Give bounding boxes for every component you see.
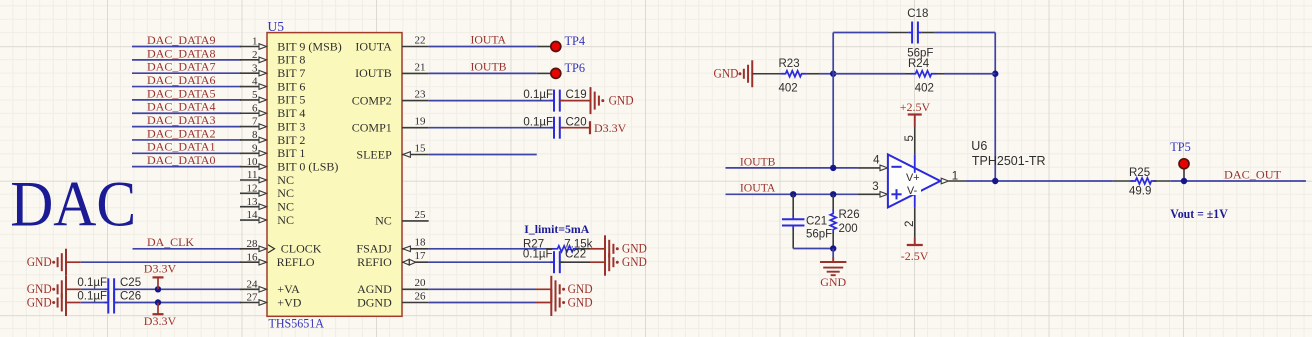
svg-text:NC: NC [277,213,294,227]
svg-text:REFLO: REFLO [277,255,315,269]
svg-text:4: 4 [252,76,258,88]
svg-text:IOUTB: IOUTB [740,156,776,168]
svg-text:3: 3 [252,62,258,74]
capacitor C21 56pF [792,194,794,216]
svg-text:CLOCK: CLOCK [281,242,322,256]
power port D3.3V bottom [153,313,164,315]
resistor R24 402 [833,73,905,75]
svg-text:2: 2 [904,221,916,227]
svg-text:5: 5 [252,89,258,101]
svg-text:BIT 9 (MSB): BIT 9 (MSB) [277,39,341,53]
pin 24 +VA [240,288,259,290]
wire net DAC_DATA8 [132,59,241,61]
pin 18 FSADJ [402,248,429,250]
junction node R23/R24/C18 [830,71,836,77]
op-amp plus sign [891,193,901,195]
svg-text:REFIO: REFIO [357,255,392,269]
wire R27 to GND [577,248,591,250]
svg-text:20: 20 [415,277,427,289]
svg-text:56pF: 56pF [806,229,832,241]
ground symbol GND at C19 [591,87,599,114]
svg-text:DGND: DGND [357,295,392,309]
svg-text:49.9: 49.9 [1129,185,1151,197]
pin 19 COMP1 [402,127,429,129]
power port D3.3V top [153,276,164,278]
svg-text:0.1µF: 0.1µF [523,116,553,128]
ground symbol GND at R27 [605,235,613,262]
ground symbol GND at AGND [551,276,559,303]
svg-text:BIT 0 (LSB): BIT 0 (LSB) [277,159,338,173]
svg-text:DAC_DATA4: DAC_DATA4 [147,102,216,114]
earth ground GND below R26 [832,249,834,258]
ground symbol GND at C22 [605,249,613,276]
svg-text:0.1µF: 0.1µF [77,290,107,302]
IC U5 body [267,33,402,317]
op-amp minus sign [891,166,901,168]
svg-text:DAC_DATA8: DAC_DATA8 [147,48,216,60]
svg-text:NC: NC [277,200,294,214]
ground symbol GND at DGND [551,289,559,316]
svg-text:V+: V+ [906,172,920,184]
svg-text:BIT 6: BIT 6 [277,79,305,93]
svg-text:14: 14 [247,209,259,221]
wire C18 right segment [922,32,935,34]
wire net DAC_DATA4 [132,112,241,114]
wire C22 to GND [560,261,590,263]
svg-text:23: 23 [415,89,427,101]
svg-text:+2.5V: +2.5V [900,100,931,114]
wire node down to IOUTB [832,74,834,168]
svg-text:DAC_DATA3: DAC_DATA3 [147,115,216,127]
svg-text:DAC_DATA9: DAC_DATA9 [147,35,216,47]
svg-text:DAC_DATA0: DAC_DATA0 [147,155,216,167]
wire node up to C18 [832,33,834,74]
wire C26 to pin 27 [116,302,242,304]
pin 23 COMP2 [402,100,429,102]
resistor R23 402 [752,73,780,75]
svg-text:DAC_DATA6: DAC_DATA6 [147,75,216,87]
svg-text:22: 22 [415,34,426,46]
svg-text:NC: NC [277,173,294,187]
svg-text:GND: GND [622,255,647,269]
pin 11 NC [240,179,259,181]
svg-text:BIT 2: BIT 2 [277,133,305,147]
svg-text:GND: GND [568,282,593,296]
svg-text:27: 27 [247,292,259,304]
svg-text:I_limit=5mA: I_limit=5mA [524,222,589,236]
junction IOUTA at R26 [830,191,836,197]
pin 2 BIT 8 [240,59,259,61]
junction node at D3.3V / +VA [155,286,161,292]
svg-text:D3.3V: D3.3V [144,314,177,328]
svg-text:GND: GND [27,255,52,269]
svg-text:DAC_DATA7: DAC_DATA7 [147,62,216,74]
svg-text:C25: C25 [120,277,141,289]
svg-text:GND: GND [609,94,634,108]
svg-text:THS5651A: THS5651A [269,316,325,331]
op-amp U6 TPH2501-TR [888,154,940,207]
svg-text:DAC_DATA5: DAC_DATA5 [147,88,216,100]
wire net IOUTA [726,193,858,195]
pin 21 IOUTB [402,72,429,74]
svg-text:COMP1: COMP1 [352,121,392,135]
svg-text:R24: R24 [908,58,930,70]
svg-text:D3.3V: D3.3V [594,121,627,135]
capacitor C18 56pF [911,22,913,44]
wire C19 to GND [560,100,591,102]
svg-text:R26: R26 [839,209,860,221]
pin 25 NC [402,220,429,222]
wire SLEEP unconnected [429,154,537,156]
svg-text:18: 18 [415,237,427,249]
svg-text:C26: C26 [120,290,141,302]
svg-text:TP5: TP5 [1170,140,1191,154]
svg-text:R23: R23 [779,58,800,70]
power port -2.5V [914,238,916,246]
svg-text:1: 1 [952,170,958,182]
capacitor C22 0.1uF [553,251,555,273]
svg-text:DAC_DATA1: DAC_DATA1 [147,142,216,154]
wire DGND to GND [429,302,535,304]
wire net DAC_DATA7 [132,72,241,74]
svg-text:17: 17 [415,250,427,262]
svg-text:8: 8 [252,129,258,141]
svg-text:NC: NC [375,214,392,228]
svg-text:C19: C19 [566,89,587,101]
resistor R26 200 [832,194,834,210]
svg-text:16: 16 [247,251,259,263]
pin 26 DGND [402,302,429,304]
svg-text:28: 28 [247,238,259,250]
svg-text:TP4: TP4 [565,34,586,48]
pin 13 NC [240,206,259,208]
svg-text:DA_CLK: DA_CLK [147,237,195,249]
wire net DAC_DATA6 [132,86,241,88]
pin 27 +VD [240,302,259,304]
wire COMP2 to C19 [429,100,554,102]
svg-text:1: 1 [252,36,258,48]
svg-text:15: 15 [415,142,427,154]
svg-text:BIT 1: BIT 1 [277,146,305,160]
svg-text:200: 200 [839,223,858,235]
pin 7 BIT 3 [240,126,259,128]
wire net IOUTB to TP6 [429,72,537,74]
wire net DAC_OUT [1170,180,1306,182]
pin 17 REFIO [402,261,429,263]
wire C21 R26 to ground [793,248,833,250]
svg-text:12: 12 [247,182,258,194]
svg-text:IOUTB: IOUTB [471,62,507,74]
svg-text:C20: C20 [566,116,587,128]
wire C20 to D3.3V [560,127,590,129]
svg-text:C21: C21 [806,215,827,227]
svg-text:IOUTA: IOUTA [471,35,507,47]
svg-text:DAC_OUT: DAC_OUT [1224,170,1281,182]
svg-text:5: 5 [904,135,916,141]
svg-text:IOUTA: IOUTA [355,39,392,53]
svg-text:BIT 5: BIT 5 [277,93,305,107]
capacitor C26 0.1uF [107,292,109,314]
svg-text:V-: V- [907,185,918,197]
svg-text:IOUTA: IOUTA [740,183,776,195]
capacitor C19 0.1uF [553,90,555,112]
op-amp pin 5 [914,127,916,155]
wire C18 left segment [833,32,888,34]
pin 5 BIT 5 [240,99,259,101]
pin 4 BIT 6 [240,86,259,88]
wire REFIO to C22 [429,261,554,263]
svg-text:GND: GND [27,282,52,296]
svg-text:3: 3 [872,181,878,193]
svg-text:26: 26 [415,290,427,302]
wire net DAC_DATA5 [132,99,241,101]
wire net DA_CLK [133,248,242,250]
pin 16 REFLO [240,261,259,263]
wire net IOUTB [726,167,858,169]
svg-text:AGND: AGND [357,282,392,296]
junction node at D3.3V / +VD [155,299,161,305]
svg-text:TPH2501-TR: TPH2501-TR [972,154,1046,168]
junction at earth ground [830,245,836,251]
wire AGND to GND [429,288,535,290]
test point TP6 [551,68,561,78]
wire GND to C25 [66,288,81,290]
svg-text:6: 6 [252,102,258,114]
svg-text:BIT 4: BIT 4 [277,106,305,120]
wire R23 to node [819,73,833,75]
svg-text:25: 25 [415,209,427,221]
wire net IOUTA to TP4 [429,46,537,48]
op-amp pin 2 [914,207,916,237]
wire net DAC_DATA9 [132,46,241,48]
wire net DAC_DATA0 [132,166,241,168]
pin 14 NC [240,219,259,221]
svg-text:IOUTB: IOUTB [355,66,392,80]
test point TP4 [551,42,561,52]
capacitor C20 0.1uF [553,117,555,139]
svg-text:GND: GND [27,295,52,309]
op-amp V- label [906,186,921,195]
pin 15 SLEEP [402,154,429,156]
wire net DAC_DATA3 [132,126,241,128]
svg-text:D3.3V: D3.3V [144,261,177,275]
svg-text:C18: C18 [907,8,928,20]
wire COMP1 to C20 [429,127,554,129]
svg-text:13: 13 [247,196,259,208]
svg-text:402: 402 [915,83,934,95]
op-amp V+ label [906,173,922,186]
svg-text:2: 2 [252,49,258,61]
svg-text:BIT 8: BIT 8 [277,53,305,67]
svg-text:C22: C22 [565,249,586,261]
wire net DAC_DATA2 [132,139,241,141]
svg-text:-2.5V: -2.5V [901,249,929,263]
wire C18 down to output node [994,33,996,182]
svg-text:R25: R25 [1129,167,1150,179]
op-amp output pin 1 [941,178,948,184]
pin 22 IOUTA [402,46,429,48]
svg-text:U6: U6 [971,139,987,153]
svg-text:402: 402 [779,83,798,95]
wire GND to C26 [66,302,81,304]
junction IOUTB node [830,165,836,171]
pin 10 BIT 0 (LSB) [240,166,259,168]
svg-text:24: 24 [247,278,259,290]
wire net DAC_DATA1 [132,152,241,154]
wire FSADJ to R27 [429,248,546,250]
svg-text:10: 10 [247,156,259,168]
svg-text:21: 21 [415,61,426,73]
pin 6 BIT 4 [240,112,259,114]
svg-text:+VA: +VA [277,282,300,296]
svg-text:11: 11 [247,169,258,181]
svg-text:7: 7 [252,116,258,128]
svg-text:SLEEP: SLEEP [356,147,392,161]
pin 28 CLOCK [240,248,259,250]
svg-text:19: 19 [415,116,427,128]
svg-text:FSADJ: FSADJ [356,242,392,256]
junction TP5 on DAC_OUT [1181,178,1187,184]
pin 20 AGND [402,288,429,290]
op-amp pin 3 [858,193,881,195]
pin 3 BIT 7 [240,72,259,74]
svg-text:0.1µF: 0.1µF [523,89,553,101]
pin 9 BIT 1 [240,152,259,154]
svg-text:0.1µF: 0.1µF [77,277,107,289]
svg-text:GND: GND [622,242,647,256]
svg-text:U5: U5 [268,19,285,34]
svg-text:NC: NC [277,186,294,200]
wire C25 to pin 24 [116,288,242,290]
capacitor C25 0.1uF [107,278,109,300]
svg-text:COMP2: COMP2 [352,93,392,107]
svg-text:TP6: TP6 [565,61,586,75]
wire GND to REFLO [66,261,81,263]
op-amp pin 4 [858,167,881,169]
svg-text:DAC: DAC [10,169,136,240]
op-amp power rail line inside [914,154,916,207]
resistor R25 49.9 [1113,180,1133,182]
svg-text:BIT 7: BIT 7 [277,66,305,80]
svg-text:BIT 3: BIT 3 [277,119,305,133]
svg-text:9: 9 [252,142,258,154]
svg-text:GND: GND [714,67,739,81]
svg-text:GND: GND [568,295,593,309]
junction node R24 right [992,71,998,77]
svg-text:0.1µF: 0.1µF [523,249,553,261]
svg-text:4: 4 [873,155,880,167]
pin 8 BIT 2 [240,139,259,141]
svg-text:GND: GND [820,275,846,289]
svg-text:Vout = ±1V: Vout = ±1V [1170,207,1228,221]
junction IOUTA at C21 [790,191,796,197]
svg-text:+VD: +VD [277,295,301,309]
junction feedback/output [992,178,998,184]
svg-text:DAC_DATA2: DAC_DATA2 [147,128,216,140]
pin 12 NC [240,192,259,194]
power port D3.3V at C20 [589,121,591,134]
wire output to R25 [966,180,1113,182]
pin 1 BIT 9 (MSB) [240,46,259,48]
resistor R27 7.15k [553,246,579,252]
